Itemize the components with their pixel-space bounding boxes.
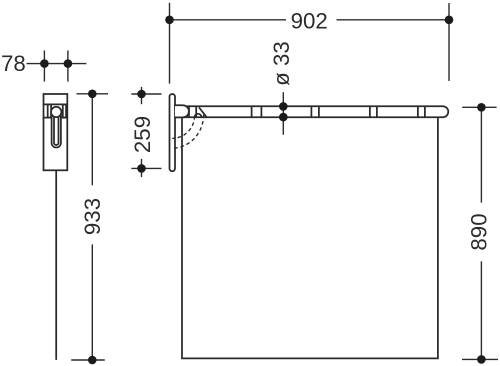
dim 890: line upper segment <box>480 107 482 202</box>
dim 259: line lower segment <box>141 159 143 177</box>
dim 902: extension left <box>169 3 171 84</box>
dim diameter 33: dot bottom <box>279 113 288 122</box>
dim 933: top cross line <box>77 93 109 95</box>
front view: rail joint line 10 <box>424 106 426 117</box>
dim 890: dot top <box>477 103 486 112</box>
dim 78: leader line <box>27 63 87 65</box>
side view: right block <box>63 104 66 117</box>
front view: rail joint line 2 <box>195 106 197 117</box>
dim 259: bottom cross line <box>131 167 161 169</box>
svg-text:933: 933 <box>80 198 105 235</box>
dim 259: dot bottom <box>137 164 146 173</box>
side view: slot outer <box>52 112 61 148</box>
dim 933: dot top <box>88 90 97 99</box>
dim 890: top cross line <box>462 106 496 108</box>
dim 78: dot right <box>64 59 73 68</box>
front view: rail joint line 9 <box>417 106 419 117</box>
dim 890: dot bottom <box>477 355 486 364</box>
front view: rail joint line 1 <box>188 106 190 117</box>
swing arc outer (dashed) <box>172 115 203 149</box>
svg-text:902: 902 <box>291 8 328 33</box>
dim 933: bottom cross line <box>71 359 105 361</box>
dim 933: line lower segment <box>91 244 93 360</box>
dim 259: line upper segment <box>141 87 143 104</box>
dim 902: line right segment <box>337 19 450 21</box>
dim 259: dot top <box>137 90 146 99</box>
front view: hinge arch <box>195 114 202 117</box>
side view: outer bracket body <box>44 94 68 170</box>
dim 78: tick left <box>43 50 45 81</box>
dim 933: dot bottom <box>88 356 97 365</box>
front view: rail tube outline <box>175 106 448 117</box>
front view: rail joint line 5 <box>310 106 312 117</box>
front view: hinge cap <box>175 105 189 117</box>
dim 890: bottom cross line <box>462 358 498 360</box>
front view: rail joint line 4 <box>260 106 262 117</box>
svg-text:890: 890 <box>467 213 492 250</box>
dim diameter 33: vertical line <box>282 92 284 135</box>
front view: wall plate <box>170 94 176 171</box>
dim 902: extension right <box>448 3 450 81</box>
dim 259: top cross line <box>131 93 161 95</box>
dim 890: line lower segment <box>480 261 482 359</box>
svg-text:259: 259 <box>130 116 155 153</box>
front view: hinge diagonal <box>199 108 206 117</box>
side view: curtain edge line below <box>55 170 57 359</box>
dim 902: line left segment <box>170 19 287 21</box>
dim 933: line upper segment <box>91 94 93 186</box>
dim 902: dot right <box>445 15 454 24</box>
dim 78: dot left <box>40 59 49 68</box>
front view: rail joint line 6 <box>318 106 320 117</box>
side view: slot inner <box>54 112 59 145</box>
front view: rail joint line 3 <box>251 106 253 117</box>
front view: curtain outline <box>182 117 438 358</box>
svg-text:78: 78 <box>1 51 26 76</box>
dim 78: tick right <box>67 50 69 81</box>
svg-text:ø 33: ø 33 <box>269 41 294 86</box>
dim diameter 33: dot top <box>279 102 288 111</box>
swing arc inner (dashed) <box>172 116 194 138</box>
side view: band top line <box>44 103 68 105</box>
dim 902: dot left <box>165 15 174 24</box>
front view: rail joint line 8 <box>376 106 378 117</box>
side view: band bottom line <box>44 117 68 119</box>
front view: rail joint line 7 <box>369 106 371 117</box>
side view: roller circle <box>51 107 61 117</box>
side view: left block <box>48 104 51 117</box>
